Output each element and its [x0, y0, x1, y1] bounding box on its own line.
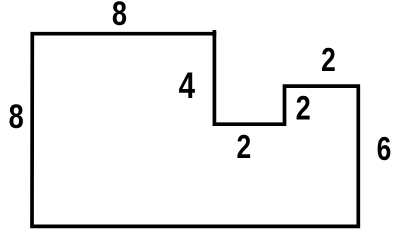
svg-text:2: 2	[296, 89, 311, 128]
svg-text:4: 4	[179, 66, 196, 107]
svg-text:6: 6	[377, 131, 392, 167]
svg-text:2: 2	[236, 129, 251, 165]
svg-text:8: 8	[9, 97, 24, 136]
svg-text:8: 8	[112, 0, 127, 33]
overshoot tick at top of the 4-side vertical	[213, 30, 217, 36]
composite rectilinear figure outline	[32, 34, 358, 227]
svg-text:2: 2	[321, 42, 336, 78]
